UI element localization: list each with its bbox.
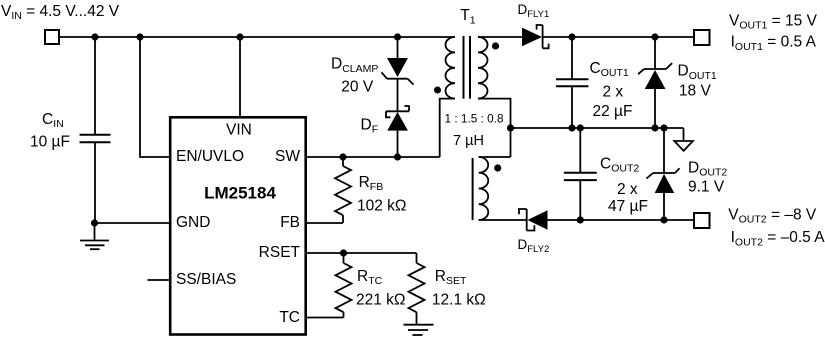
capacitor COUT2 xyxy=(564,128,597,220)
transformer T1 core xyxy=(464,36,473,220)
svg-text:2 x: 2 x xyxy=(603,83,624,100)
wire: GND rail to IC xyxy=(95,222,171,224)
resistor RFB xyxy=(335,157,351,223)
svg-text:VIN: VIN xyxy=(226,122,252,139)
svg-text:102 kΩ: 102 kΩ xyxy=(357,198,407,215)
node: common tap junction xyxy=(507,124,514,131)
node: rail junction COUT2 bottom xyxy=(577,216,584,223)
wire: secondary 2 bottom to DFLY2 xyxy=(479,219,527,221)
node: VIN junction at EN xyxy=(136,33,143,40)
transformer T1 primary winding xyxy=(445,37,455,99)
transformer T1 secondary 1 winding xyxy=(478,37,488,99)
wire: DCLAMP branch top xyxy=(397,37,399,58)
svg-text:FB: FB xyxy=(280,214,300,231)
svg-text:18 V: 18 V xyxy=(679,82,712,99)
ground: signal ground triangle xyxy=(674,141,693,151)
svg-text:20 V: 20 V xyxy=(341,78,374,95)
svg-text:2 x: 2 x xyxy=(617,181,638,198)
wire: secondary 1 bottom to common xyxy=(478,99,511,157)
node: RSET junction xyxy=(340,249,347,256)
svg-text:10 µF: 10 µF xyxy=(30,134,70,151)
diode DFLY2 (schottky) xyxy=(519,209,548,231)
ground: RSET ground symbol xyxy=(404,325,434,335)
wire: +15V output rail xyxy=(543,36,694,38)
svg-text:1 : 1.5 : 0.8: 1 : 1.5 : 0.8 xyxy=(444,112,503,126)
wire: secondary 2 top to common xyxy=(479,156,511,158)
diode DFLY1 (schottky) xyxy=(522,25,549,48)
wire: RSET pin rail xyxy=(306,252,417,254)
node: SW junction at DF xyxy=(394,153,401,160)
svg-text:47 µF: 47 µF xyxy=(608,198,648,215)
wire: DCLAMP to DF xyxy=(397,79,399,112)
node: rail junction at COUT1 xyxy=(568,33,575,40)
wire: SS/BIAS stub xyxy=(148,279,171,281)
node: VIN junction at CIN xyxy=(91,33,98,40)
terminal: VOUT2 square xyxy=(694,213,710,228)
wire: ground triangle drop xyxy=(683,128,685,140)
wire: secondary 1 top to DFLY1 xyxy=(478,36,522,38)
wire: EN/UVLO branch xyxy=(140,37,170,157)
svg-text:GND: GND xyxy=(176,214,210,231)
svg-text:7 µH: 7 µH xyxy=(453,133,484,149)
svg-text:LM25184: LM25184 xyxy=(204,184,276,203)
wire: CIN top branch xyxy=(94,37,96,134)
node: mid junction DOUT2 xyxy=(660,124,667,131)
wire: CIN bottom to GND rail xyxy=(94,142,96,223)
node: secondary 1 phase dot xyxy=(492,42,499,49)
svg-text:EN/UVLO: EN/UVLO xyxy=(176,148,244,165)
resistor RSET xyxy=(409,253,425,325)
node: VIN junction at VIN pin xyxy=(236,33,243,40)
wire: SW node rail xyxy=(306,156,440,158)
svg-text:TC: TC xyxy=(279,309,300,326)
wire: TC pin to RTC xyxy=(306,317,344,319)
node: mid junction DOUT1 xyxy=(651,124,658,131)
node: SW junction at RFB xyxy=(339,153,346,160)
diode DOUT2 (zener 9.1V) xyxy=(646,128,679,220)
diode DOUT1 (zener 18V) xyxy=(638,37,672,128)
svg-text:22 µF: 22 µF xyxy=(593,103,633,120)
capacitor CIN xyxy=(80,135,111,143)
terminal: VIN input square xyxy=(45,30,59,44)
resistor RTC xyxy=(336,253,352,318)
node: rail junction at DOUT1 xyxy=(651,33,658,40)
wire: VIN pin branch xyxy=(239,37,241,117)
wire: top VIN rail xyxy=(60,36,455,38)
node: primary phase dot xyxy=(434,87,441,94)
capacitor COUT1 xyxy=(556,37,589,128)
wire: FB pin to RFB xyxy=(306,222,343,224)
svg-text:RSET: RSET xyxy=(259,244,301,261)
node: mid junction COUT2 xyxy=(577,124,584,131)
transformer T1 secondary 2 winding xyxy=(479,157,489,220)
op-amp U1: LM25184 IC box xyxy=(170,117,306,334)
wire: -8V output rail xyxy=(548,219,695,221)
wire: primary bottom to SW xyxy=(440,99,455,157)
node: mid junction COUT1 xyxy=(568,124,575,131)
terminal: VOUT1 square xyxy=(694,30,710,45)
wire: DF to SW rail xyxy=(397,131,399,157)
diode DCLAMP (zener 20V) xyxy=(382,58,414,85)
node: VIN junction at DCLAMP xyxy=(394,33,401,40)
ground: main ground symbol xyxy=(80,223,109,249)
svg-text:221 kΩ: 221 kΩ xyxy=(356,292,406,309)
diode DF xyxy=(386,106,409,131)
node: GND junction xyxy=(91,219,98,226)
wire: common mid rail xyxy=(511,127,684,129)
svg-text:SS/BIAS: SS/BIAS xyxy=(176,271,236,288)
node: rail junction DOUT2 bottom xyxy=(660,216,667,223)
svg-text:SW: SW xyxy=(275,148,300,165)
node: secondary 2 phase dot xyxy=(494,164,501,171)
svg-text:12.1 kΩ: 12.1 kΩ xyxy=(432,292,486,309)
svg-text:9.1 V: 9.1 V xyxy=(688,179,725,196)
